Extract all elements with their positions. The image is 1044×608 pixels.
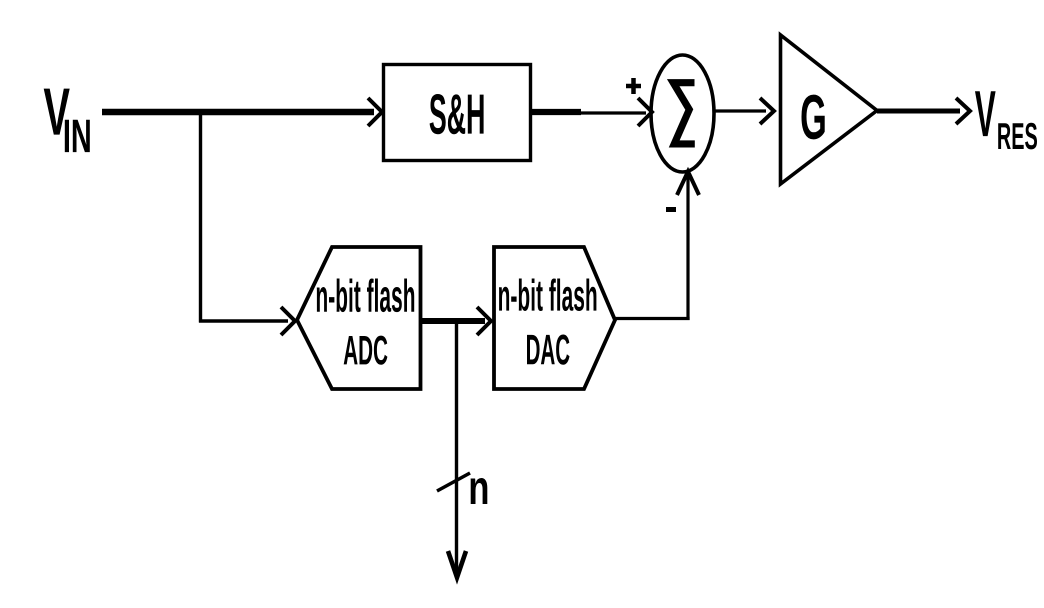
label ADC [344,336,388,365]
wire: branch down from VIN node [199,109,202,323]
wire: S&H output to summer (thick segment) [531,109,581,115]
wire: feedback up to summer minus input [686,174,689,320]
arrowhead into gain amp [760,98,774,124]
plus sign at summer input [626,78,641,94]
arrowhead digital bus down [448,551,466,578]
arrowhead at VRES output [956,98,970,124]
label sigma [673,83,695,144]
wire: summer to gain amp [715,109,766,112]
block S&H [384,65,531,161]
label S&H [430,94,484,134]
wire: digital output bus down [455,321,458,576]
arrowhead into summer plus input [638,98,652,126]
arrowhead into ADC [281,307,295,335]
node VIN label [44,89,90,153]
minus sign at summer input [666,207,676,212]
wire: gain amp output [877,109,960,114]
block DAC (n-bit flash DAC) [494,247,615,389]
block ADC (n-bit flash ADC) [297,247,421,389]
arrowhead into S&H [368,98,382,126]
wire: S&H output to summer (thin segment) [578,111,646,114]
summing junction (circle) [651,55,714,172]
bus width slash [437,473,470,491]
label G [802,95,825,140]
wire: VIN to S&H input (thick) [102,109,374,116]
label n-bit flash (ADC) [317,279,414,313]
arrowhead into summer minus input [677,172,699,196]
gain amp G (triangle) [781,35,878,184]
wire: DAC output to feedback corner [615,317,690,320]
wire: ADC to DAC (thick) [421,318,486,324]
label n-bit flash (DAC) [499,279,596,312]
label n (bus width) [471,478,488,504]
arrowhead into DAC [477,307,491,335]
node VRES label [975,91,1037,149]
wire: branch to ADC input [199,319,288,322]
label DAC [527,335,570,365]
